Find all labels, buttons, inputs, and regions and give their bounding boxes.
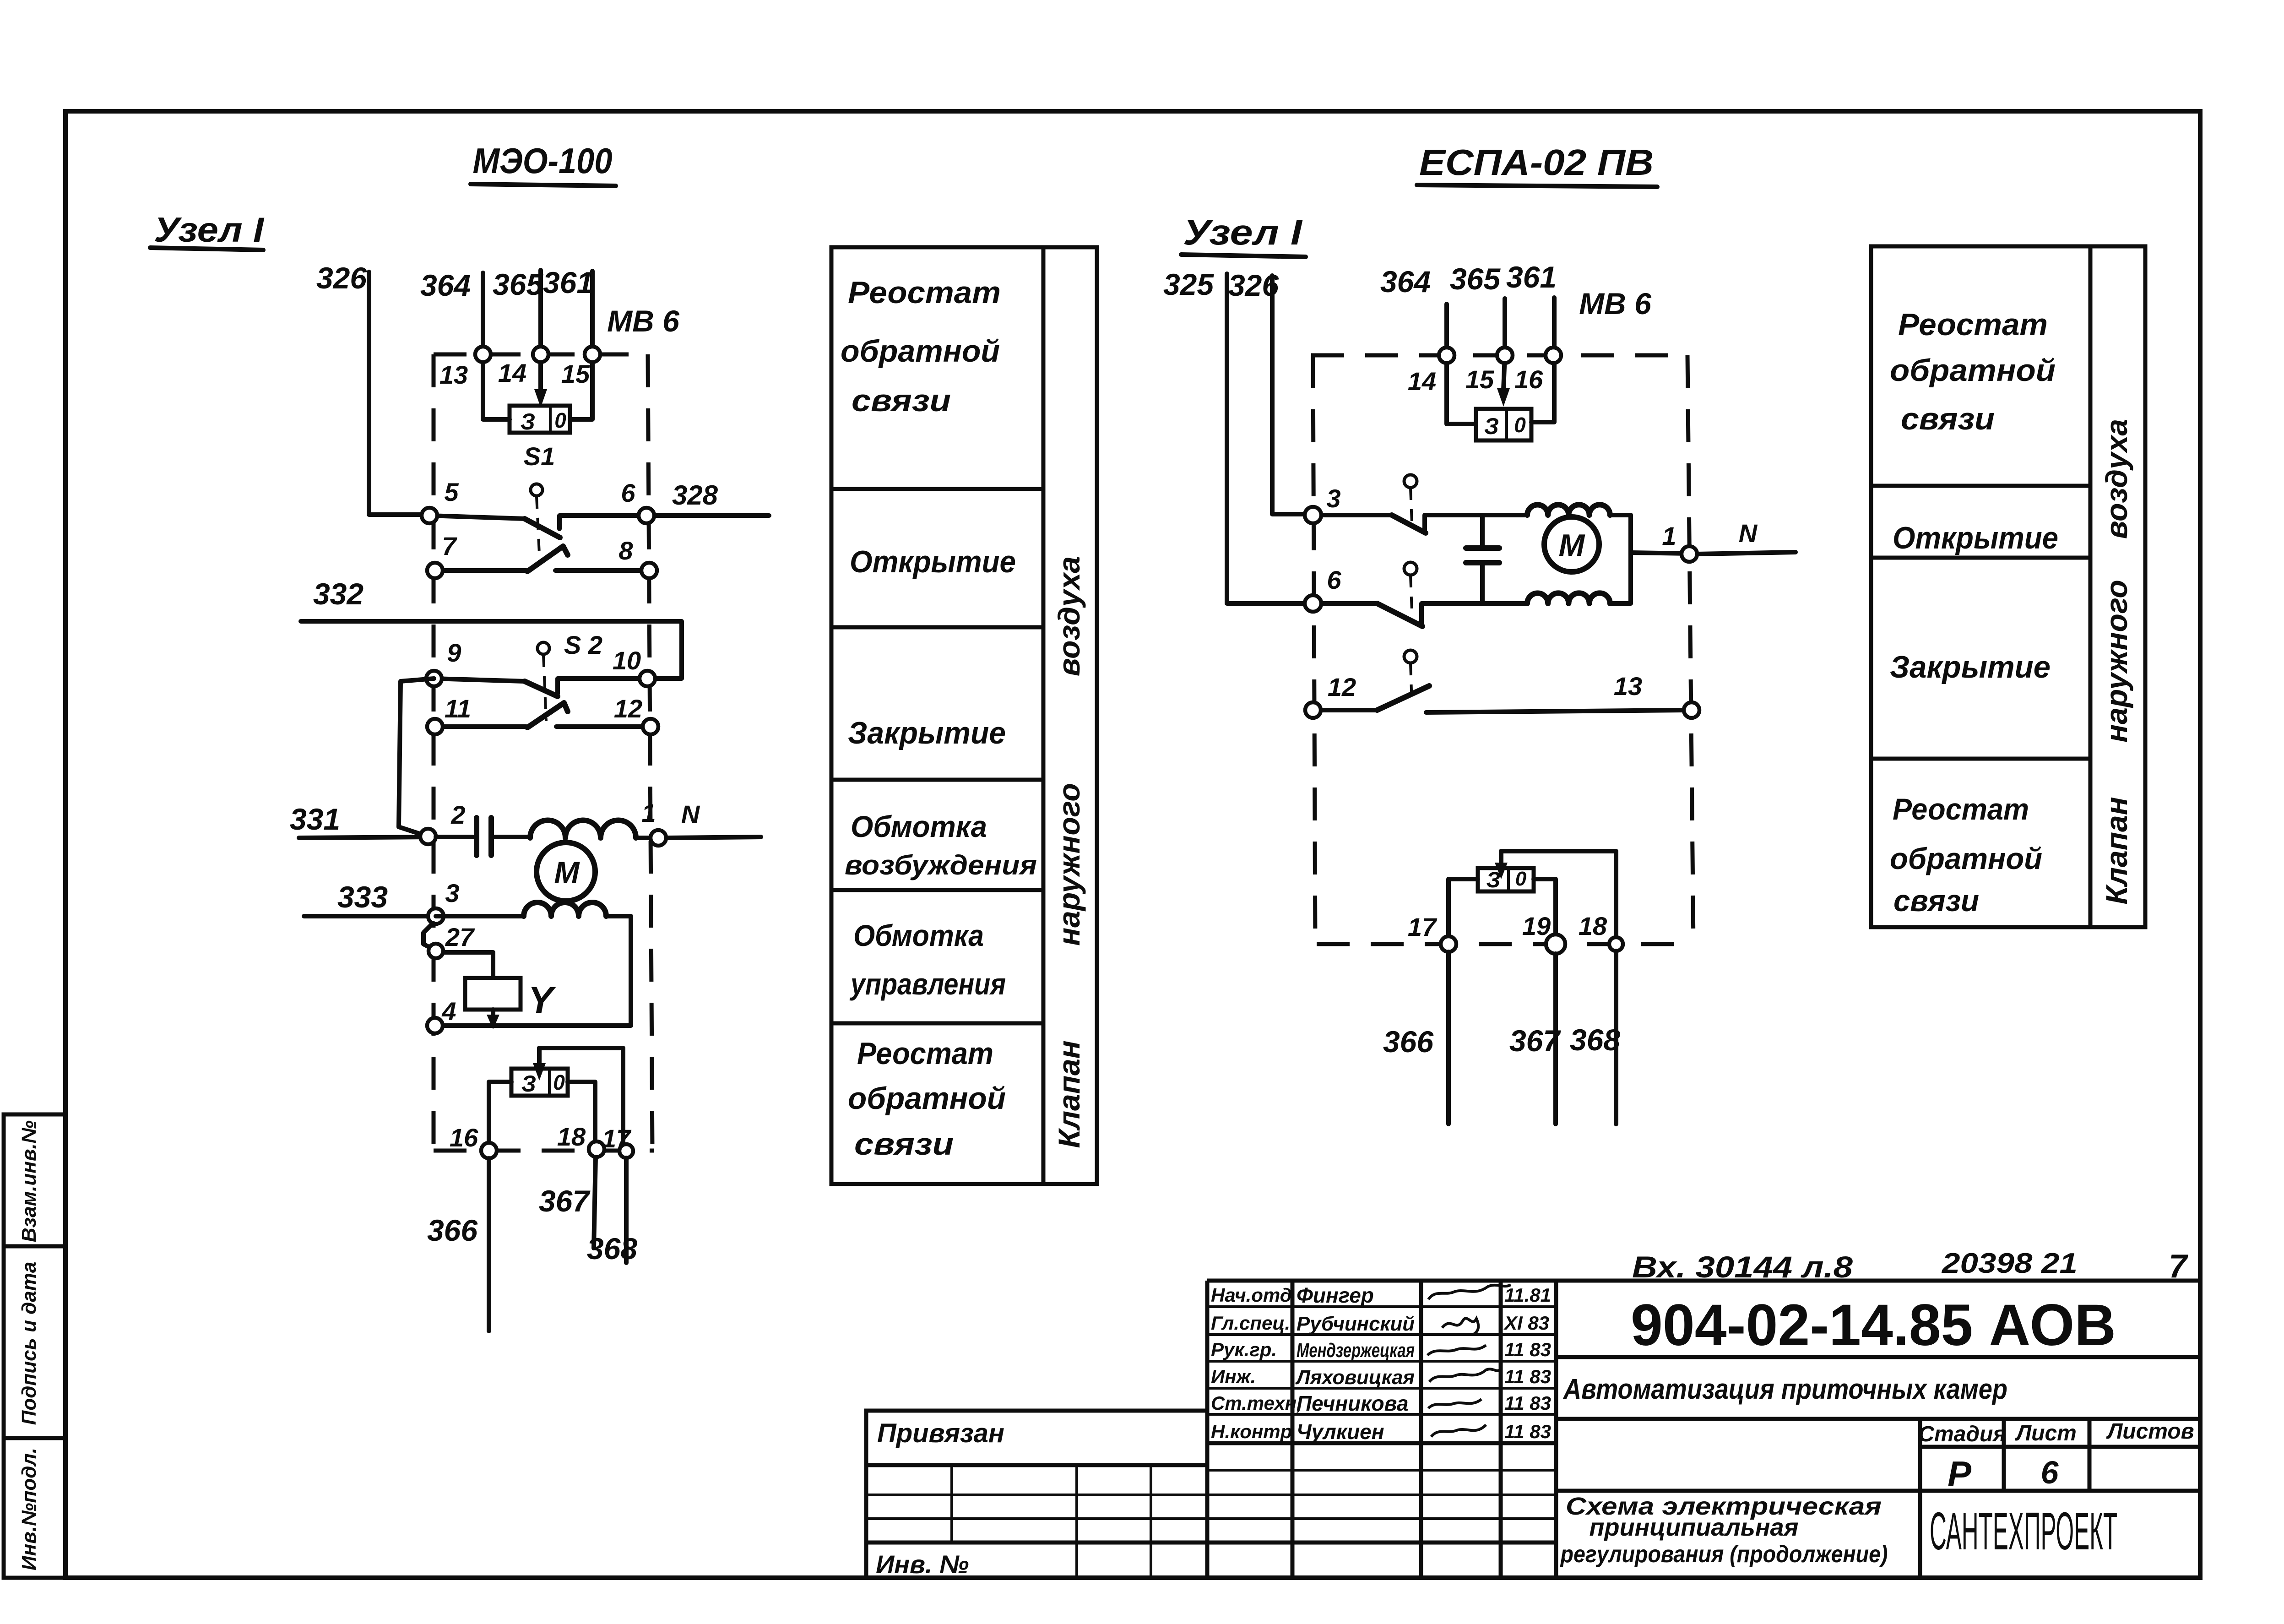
contact K2 fixed side bbox=[1421, 603, 1527, 625]
wire 364 (right) bbox=[1380, 265, 1447, 355]
svg-text:Гл.спец.: Гл.спец. bbox=[1211, 1312, 1290, 1334]
svg-text:Фингер: Фингер bbox=[1297, 1283, 1374, 1307]
svg-text:N: N bbox=[1739, 519, 1758, 548]
svg-text:ЕСПА-02 ПВ: ЕСПА-02 ПВ bbox=[1419, 142, 1654, 183]
svg-text:З: З bbox=[1484, 413, 1499, 439]
contact K2 wire from node 6 bbox=[1313, 601, 1377, 606]
svg-text:наружного: наружного bbox=[2100, 580, 2133, 742]
drawing description bbox=[1556, 1491, 2200, 1568]
svg-text:Чулкиен: Чулкиен bbox=[1297, 1420, 1384, 1444]
svg-text:5: 5 bbox=[444, 478, 459, 506]
svg-text:11.81: 11.81 bbox=[1504, 1284, 1551, 1306]
S1 lower contact 7-8 wire bbox=[435, 568, 526, 573]
svg-text:связи: связи bbox=[852, 383, 951, 418]
S1 blade (contact 5-6) bbox=[525, 519, 560, 538]
svg-text:Ляховицкая: Ляховицкая bbox=[1295, 1366, 1415, 1389]
switch S1 bbox=[524, 442, 555, 563]
svg-text:Ст.техн,: Ст.техн, bbox=[1211, 1392, 1302, 1414]
signature row Н.контр Чулкиен bbox=[1211, 1420, 1551, 1444]
svg-text:Реостат: Реостат bbox=[848, 275, 1001, 310]
S2 blade (contact 9-10) bbox=[525, 681, 558, 696]
wire node9 to node2 bbox=[399, 679, 434, 836]
wire terminal16 to rheostat R3 bbox=[1531, 355, 1554, 422]
svg-text:S1: S1 bbox=[524, 442, 555, 471]
svg-text:связи: связи bbox=[1901, 402, 1995, 436]
wire 332 bbox=[301, 577, 682, 679]
terminal 19 / wire 367 (right) bbox=[1509, 912, 1565, 1124]
R2 wiper wire to terminal 17 bbox=[533, 1048, 623, 1144]
ЕСПА device boundary (dashed box) bbox=[1311, 355, 1695, 944]
wire 365 (left) bbox=[493, 267, 543, 354]
title ЕСПА-02 ПВ bbox=[1417, 142, 1657, 187]
svg-text:10: 10 bbox=[613, 646, 641, 675]
capacitor C2 bbox=[1466, 515, 1499, 603]
svg-text:Реостат: Реостат bbox=[857, 1036, 993, 1071]
svg-text:воздуха: воздуха bbox=[1052, 556, 1086, 676]
wire 365 (right) bbox=[1450, 262, 1505, 355]
wire 326 (right) bbox=[1228, 268, 1305, 514]
svg-text:367: 367 bbox=[1509, 1024, 1561, 1058]
node 5 bbox=[422, 478, 459, 523]
rheostat R4 (feedback) З-0 bbox=[1478, 868, 1534, 892]
svg-text:332: 332 bbox=[313, 577, 363, 611]
svg-text:возбуждения: возбуждения bbox=[845, 850, 1037, 880]
rheostat R1 (feedback) З-0 bbox=[510, 406, 570, 435]
svg-text:6: 6 bbox=[621, 478, 635, 507]
svg-text:Листов: Листов bbox=[2106, 1419, 2194, 1444]
node 27 bbox=[429, 923, 475, 958]
node 3 (right) bbox=[1305, 484, 1341, 523]
МЭО-100 device boundary (dashed box) bbox=[434, 354, 654, 1151]
svg-text:904-02-14.85 АОВ: 904-02-14.85 АОВ bbox=[1631, 1293, 2116, 1358]
svg-text:Рубчинский: Рубчинский bbox=[1297, 1313, 1415, 1335]
svg-text:15: 15 bbox=[561, 359, 590, 388]
terminal 15 bbox=[561, 347, 600, 388]
svg-text:13: 13 bbox=[439, 360, 468, 389]
node 2 bbox=[420, 800, 466, 844]
svg-text:Инж.: Инж. bbox=[1211, 1366, 1256, 1387]
svg-text:12: 12 bbox=[1328, 673, 1356, 701]
svg-text:19: 19 bbox=[1522, 912, 1551, 940]
svg-text:Закрытие: Закрытие bbox=[848, 716, 1006, 750]
left legend table frame bbox=[831, 247, 1097, 1184]
wire L2 down to node4 rail bbox=[443, 916, 631, 1026]
wire 365 wiper arrow into R1 bbox=[534, 354, 547, 407]
node 7 bbox=[427, 532, 457, 578]
svg-text:0: 0 bbox=[554, 408, 566, 432]
svg-text:Узел I: Узел I bbox=[1183, 212, 1303, 252]
stamp column (left margin) bbox=[4, 1114, 65, 1578]
wire 361 to rheostat R1 bbox=[570, 354, 592, 419]
svg-text:Открытие: Открытие bbox=[850, 544, 1016, 579]
svg-text:Обмотка: Обмотка bbox=[853, 918, 984, 952]
svg-text:14: 14 bbox=[1408, 367, 1436, 396]
R4 right wire to terminal 19 bbox=[1534, 879, 1556, 934]
svg-text:Инв.№подл.: Инв.№подл. bbox=[18, 1448, 40, 1570]
svg-text:326: 326 bbox=[316, 261, 367, 295]
svg-text:обратной: обратной bbox=[1890, 842, 2042, 875]
terminal 16 (right) bbox=[1514, 348, 1561, 394]
wire 325 bbox=[1163, 267, 1305, 603]
S2 lower contact 11-12 wire bbox=[435, 724, 526, 729]
wire 328 bbox=[646, 480, 769, 516]
signature row Рук.гр. Мендзержецкая bbox=[1211, 1339, 1551, 1362]
svg-text:27: 27 bbox=[445, 923, 475, 951]
winding L4 (bottom, right motor) bbox=[1527, 593, 1610, 603]
motor M (right) bbox=[1544, 517, 1599, 572]
svg-text:МВ 6: МВ 6 bbox=[1579, 287, 1652, 320]
S1 lower blade bbox=[527, 546, 568, 571]
contact K2 pivot bbox=[1404, 562, 1417, 611]
wire node3 to winding L2 bbox=[436, 914, 524, 918]
svg-text:367: 367 bbox=[539, 1184, 591, 1218]
svg-text:333: 333 bbox=[337, 880, 388, 914]
svg-text:Инв. №: Инв. № bbox=[876, 1550, 969, 1579]
tap jog node3 to node27 bbox=[423, 923, 433, 949]
left table row 1: Реостат обратной связи bbox=[841, 275, 1001, 418]
signature row Инж. Ляховицкая bbox=[1211, 1366, 1551, 1389]
node 9 bbox=[426, 638, 461, 686]
terminal 17 / wire 368 (left) bbox=[587, 1124, 637, 1266]
svg-text:Закрытие: Закрытие bbox=[1890, 650, 2051, 684]
svg-text:11: 11 bbox=[445, 694, 471, 723]
svg-text:М: М bbox=[554, 855, 580, 889]
wire 364 (left) bbox=[420, 268, 483, 354]
svg-text:15: 15 bbox=[1465, 365, 1494, 394]
wire 333 bbox=[304, 880, 428, 916]
svg-text:обратной: обратной bbox=[1890, 353, 2056, 388]
terminal 14 (right) bbox=[1408, 348, 1454, 396]
svg-text:366: 366 bbox=[427, 1213, 478, 1247]
terminal 14 bbox=[498, 347, 548, 387]
svg-text:Стадия: Стадия bbox=[1918, 1422, 2006, 1446]
R4 left wire to terminal 17 bbox=[1449, 879, 1478, 936]
winding L2 (обмотка управления) bbox=[524, 902, 606, 916]
svg-text:Печникова: Печникова bbox=[1297, 1391, 1408, 1415]
fixed contact and wire to node 10 bbox=[558, 679, 647, 694]
node 6 (right) bbox=[1305, 565, 1341, 612]
svg-text:Реостат: Реостат bbox=[1898, 307, 2048, 342]
right table row 1: Реостат обратной связи bbox=[1890, 307, 2056, 436]
wire node5 to S1 blade bbox=[429, 516, 525, 519]
svg-text:Лист: Лист bbox=[2015, 1421, 2077, 1445]
svg-text:XI 83: XI 83 bbox=[1503, 1312, 1549, 1334]
svg-text:связи: связи bbox=[854, 1127, 954, 1162]
svg-text:3: 3 bbox=[445, 879, 459, 907]
R4 wiper wire to terminal 18 bbox=[1495, 851, 1616, 936]
svg-text:6: 6 bbox=[2041, 1455, 2059, 1490]
svg-text:0: 0 bbox=[553, 1070, 565, 1094]
svg-text:S 2: S 2 bbox=[564, 630, 602, 659]
winding L1 (обмотка возбуждения) bbox=[530, 820, 636, 838]
terminal 13 bbox=[439, 347, 491, 389]
node 6 bbox=[621, 478, 654, 523]
svg-text:Узел I: Узел I bbox=[154, 211, 265, 250]
wire terminal15 wiper arrow into R3 bbox=[1497, 355, 1510, 407]
node 4 bbox=[427, 997, 456, 1033]
Стадия Лист Листов section bbox=[1556, 1419, 2200, 1578]
svg-text:Привязан: Привязан bbox=[877, 1418, 1004, 1448]
S2 lower blade bbox=[527, 703, 568, 728]
svg-text:0: 0 bbox=[1514, 413, 1526, 437]
left table row 4: Обмотка возбуждения bbox=[845, 809, 1037, 880]
svg-text:1: 1 bbox=[641, 798, 656, 827]
node 12 (right) bbox=[1305, 673, 1356, 718]
svg-text:М: М bbox=[1559, 528, 1585, 563]
svg-text:2: 2 bbox=[450, 800, 465, 829]
terminal 15 (right) bbox=[1465, 348, 1513, 394]
wire 364 to rheostat R1 bbox=[483, 354, 510, 419]
wire node9 to S2 blade bbox=[434, 679, 525, 681]
wire L1 to node 1 bbox=[636, 836, 658, 840]
svg-text:связи: связи bbox=[1893, 884, 1979, 918]
svg-text:обратной: обратной bbox=[841, 334, 1000, 369]
contact K2 blade bbox=[1377, 603, 1422, 626]
svg-text:18: 18 bbox=[557, 1122, 586, 1151]
title block grid bbox=[866, 1281, 2200, 1578]
svg-text:Y: Y bbox=[528, 979, 556, 1021]
contact K1 wire from node 3 bbox=[1313, 513, 1392, 517]
wire to node 8 bbox=[555, 568, 649, 573]
svg-text:Клапан: Клапан bbox=[1052, 1040, 1086, 1148]
svg-text:Взам.инв.№: Взам.инв.№ bbox=[18, 1120, 40, 1242]
fixed contact and wire to node 6 bbox=[559, 516, 646, 529]
node 1 / wire N (right) bbox=[1662, 519, 1796, 562]
svg-text:16: 16 bbox=[1514, 365, 1543, 394]
switch S2 bbox=[537, 630, 602, 721]
svg-text:361: 361 bbox=[543, 266, 593, 299]
right legend table frame bbox=[1871, 246, 2145, 927]
label Узел I (left) bbox=[150, 211, 265, 250]
node 3 (left) bbox=[428, 879, 460, 924]
svg-text:325: 325 bbox=[1163, 267, 1214, 301]
svg-text:МЭО-100: МЭО-100 bbox=[473, 141, 613, 181]
wire 361 (left) bbox=[543, 266, 593, 354]
motor M (left) bbox=[537, 842, 595, 901]
terminal 18 / wire 367 (left) bbox=[539, 1122, 604, 1248]
signature row Гл.спец. Рубчинский bbox=[1211, 1312, 1549, 1335]
svg-text:11 83: 11 83 bbox=[1504, 1366, 1551, 1387]
svg-text:368: 368 bbox=[587, 1232, 637, 1266]
wire 331 bbox=[290, 802, 428, 838]
svg-text:366: 366 bbox=[1383, 1025, 1434, 1059]
svg-text:365: 365 bbox=[493, 267, 543, 301]
project name row bbox=[1556, 1357, 2200, 1405]
terminal 18 / wire 368 (right) bbox=[1570, 912, 1623, 1124]
svg-text:З: З bbox=[521, 1071, 536, 1097]
wire to node 12 bbox=[556, 724, 651, 729]
svg-text:МВ 6: МВ 6 bbox=[607, 304, 680, 338]
svg-text:принципиальная: принципиальная bbox=[1590, 1514, 1799, 1541]
svg-text:Автоматизация приточных камер: Автоматизация приточных камер bbox=[1562, 1374, 2007, 1405]
Привязан table bbox=[866, 1411, 1207, 1578]
svg-text:4: 4 bbox=[441, 997, 456, 1026]
wire terminal14 to rheostat R3 bbox=[1447, 355, 1476, 424]
svg-text:наружного: наружного bbox=[1052, 783, 1086, 945]
svg-text:17: 17 bbox=[602, 1124, 632, 1153]
signature row Ст.техн, Печникова bbox=[1211, 1391, 1551, 1415]
svg-text:З: З bbox=[521, 409, 535, 435]
svg-text:9: 9 bbox=[447, 638, 461, 667]
svg-text:11 83: 11 83 bbox=[1504, 1421, 1551, 1442]
svg-text:17: 17 bbox=[1408, 912, 1438, 941]
svg-text:7: 7 bbox=[442, 532, 457, 560]
node 10 bbox=[613, 646, 655, 686]
svg-text:3: 3 bbox=[1326, 484, 1340, 513]
svg-text:Рук.гр.: Рук.гр. bbox=[1211, 1339, 1277, 1360]
svg-text:365: 365 bbox=[1450, 262, 1501, 296]
node 12 bbox=[614, 694, 658, 734]
svg-text:12: 12 bbox=[614, 694, 642, 723]
svg-text:1: 1 bbox=[1662, 521, 1676, 550]
svg-text:0: 0 bbox=[1515, 868, 1527, 890]
wire 326 bbox=[316, 261, 429, 515]
node 1 / wire N (left) bbox=[641, 798, 761, 846]
right table vertical label Клапан наружного воздуха bbox=[2100, 419, 2133, 905]
svg-text:331: 331 bbox=[290, 802, 340, 836]
svg-text:Подпись и дата: Подпись и дата bbox=[18, 1262, 40, 1425]
node 13 (right) bbox=[1614, 672, 1699, 718]
svg-text:Открытие: Открытие bbox=[1893, 521, 2058, 555]
svg-text:14: 14 bbox=[498, 358, 526, 387]
left table row 6: Реостат обратной связи bbox=[848, 1036, 1006, 1162]
svg-text:364: 364 bbox=[1380, 265, 1431, 299]
svg-text:воздуха: воздуха bbox=[2100, 419, 2133, 539]
svg-text:Мендзержецкая: Мендзержецкая bbox=[1297, 1339, 1415, 1362]
svg-text:11 83: 11 83 bbox=[1504, 1392, 1551, 1414]
svg-text:регулирования (продолжение): регулирования (продолжение) bbox=[1560, 1541, 1888, 1568]
rheostat R2 (feedback) З-0 bbox=[511, 1069, 568, 1097]
title МЭО-100 bbox=[471, 141, 616, 186]
svg-text:16: 16 bbox=[450, 1123, 478, 1152]
left table vertical label Клапан наружного воздуха bbox=[1052, 556, 1086, 1148]
rheostat R3 (feedback) З-0 bbox=[1476, 409, 1531, 440]
svg-text:11 83: 11 83 bbox=[1504, 1339, 1551, 1360]
svg-text:328: 328 bbox=[672, 480, 718, 511]
label Узел I (right) bbox=[1181, 212, 1306, 257]
svg-text:8: 8 bbox=[618, 536, 633, 565]
R2 right wire to terminal 18 bbox=[568, 1082, 595, 1142]
wire 361 (right) bbox=[1506, 260, 1557, 355]
wire node27 to relay Y bbox=[443, 952, 493, 978]
svg-text:Р: Р bbox=[1948, 1454, 1972, 1494]
windings junction to node 1 (right) bbox=[1610, 515, 1689, 603]
node 8 bbox=[618, 536, 657, 578]
contact K3 wire from node 12 bbox=[1313, 708, 1377, 712]
contact K3 blade bbox=[1377, 686, 1429, 710]
svg-text:САНТЕХПРОЕКТ: САНТЕХПРОЕКТ bbox=[1930, 1501, 2117, 1561]
signature row Нач.отд Фингер bbox=[1211, 1283, 1551, 1307]
svg-text:управления: управления bbox=[849, 967, 1006, 1001]
right table row 4: Реостат обратной связи bbox=[1890, 792, 2042, 918]
capacitor C1 bbox=[436, 818, 530, 855]
svg-text:Н.контр: Н.контр bbox=[1211, 1421, 1292, 1442]
svg-text:обратной: обратной bbox=[848, 1081, 1006, 1116]
terminal 16 / wire 366 (left) bbox=[427, 1123, 497, 1331]
svg-text:Клапан: Клапан bbox=[2100, 797, 2133, 904]
relay Y bbox=[465, 978, 556, 1029]
terminal 17 / wire 366 (right) bbox=[1383, 912, 1456, 1124]
svg-text:364: 364 bbox=[420, 268, 471, 302]
svg-text:6: 6 bbox=[1327, 565, 1341, 594]
svg-text:Обмотка: Обмотка bbox=[851, 809, 987, 843]
left table row 5: Обмотка управления bbox=[849, 918, 1006, 1001]
contact K1 pivot bbox=[1404, 475, 1417, 523]
contact K1 fixed side bbox=[1425, 515, 1527, 531]
svg-text:Реостат: Реостат bbox=[1893, 792, 2029, 826]
wire contact K3 to node 13 bbox=[1426, 710, 1684, 712]
svg-text:361: 361 bbox=[1506, 260, 1557, 294]
svg-text:368: 368 bbox=[1570, 1023, 1620, 1057]
winding L3 (top, right motor) bbox=[1527, 505, 1610, 515]
svg-text:Нач.отд: Нач.отд bbox=[1211, 1284, 1292, 1306]
svg-text:18: 18 bbox=[1579, 912, 1607, 940]
svg-text:13: 13 bbox=[1614, 672, 1642, 701]
contact K3 pivot bbox=[1404, 650, 1417, 704]
node 11 bbox=[427, 694, 471, 734]
contact K1 blade bbox=[1392, 515, 1426, 533]
svg-text:N: N bbox=[681, 800, 700, 829]
svg-text:20398 21: 20398 21 bbox=[1942, 1248, 2078, 1279]
R2 left wire to terminal 16 bbox=[489, 1082, 511, 1144]
